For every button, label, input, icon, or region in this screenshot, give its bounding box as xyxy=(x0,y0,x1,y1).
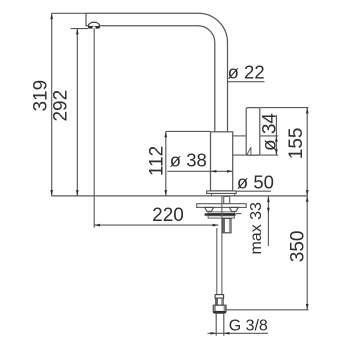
base plate skirt xyxy=(212,193,235,196)
clamp plate lower rect xyxy=(208,216,234,218)
svg-text:155: 155 xyxy=(286,128,307,160)
clamp plate thin top xyxy=(208,212,235,214)
clamp plate dark band xyxy=(205,213,236,215)
dim ø34 line xyxy=(275,115,277,155)
svg-text:220: 220 xyxy=(152,205,184,226)
handle mount step line xyxy=(233,135,247,137)
faucet body (ø38 cylinder) xyxy=(211,132,233,191)
mounting nut xyxy=(222,218,231,232)
aerator centerline extension xyxy=(93,29,95,228)
aerator outer dome xyxy=(88,22,99,26)
dim 319 line xyxy=(51,13,53,196)
G3/8 extension lines xyxy=(216,314,224,336)
connector threaded neck xyxy=(216,298,224,305)
svg-text:ø 34: ø 34 xyxy=(259,113,280,151)
dim 112 line xyxy=(165,131,167,196)
svg-text:ø 50: ø 50 xyxy=(237,172,274,193)
svg-text:292: 292 xyxy=(50,90,71,122)
svg-text:ø 38: ø 38 xyxy=(170,149,207,170)
svg-text:G 3/8: G 3/8 xyxy=(229,318,268,335)
dim 112 extension xyxy=(166,130,211,132)
aerator dark base xyxy=(88,26,100,29)
ø34 top extension xyxy=(260,135,278,137)
dim 350 line xyxy=(306,196,308,310)
dim ø38 line xyxy=(167,170,232,172)
counter line xyxy=(52,195,308,197)
connector nut xyxy=(213,305,226,313)
aerator inner dome xyxy=(92,26,96,28)
dim 155 line xyxy=(306,108,308,196)
handle knob xyxy=(246,108,260,156)
350 bottom extension xyxy=(226,309,309,311)
svg-text:350: 350 xyxy=(288,231,309,263)
handle top extension xyxy=(260,107,309,109)
supply hose left edge xyxy=(216,228,218,295)
dim max33 line xyxy=(267,196,269,246)
spout tube outline xyxy=(86,13,228,132)
max33 bottom tick xyxy=(236,213,242,215)
supply hose right edge xyxy=(221,196,223,294)
wide washer xyxy=(197,204,247,208)
base plate on counter xyxy=(207,191,237,194)
connector crimp collar xyxy=(215,295,224,299)
left clamp wedge xyxy=(205,207,214,211)
right clamp wedge xyxy=(229,207,238,211)
svg-text:319: 319 xyxy=(30,80,51,112)
dim 319 top extension xyxy=(52,12,87,14)
under-counter stem xyxy=(224,196,230,203)
dim 220 line xyxy=(94,224,218,226)
dim 292 line xyxy=(76,29,78,196)
lever wedge xyxy=(247,147,251,155)
svg-text:ø 22: ø 22 xyxy=(228,61,265,82)
ø22 leader xyxy=(228,81,265,83)
ø34 bottom extension / body line xyxy=(233,154,279,156)
svg-text:max 33: max 33 xyxy=(248,202,265,255)
ø50 leader xyxy=(235,190,271,192)
dim 292 top extension xyxy=(71,28,89,30)
G3/8 dim line xyxy=(208,332,269,334)
svg-text:112: 112 xyxy=(147,146,168,176)
